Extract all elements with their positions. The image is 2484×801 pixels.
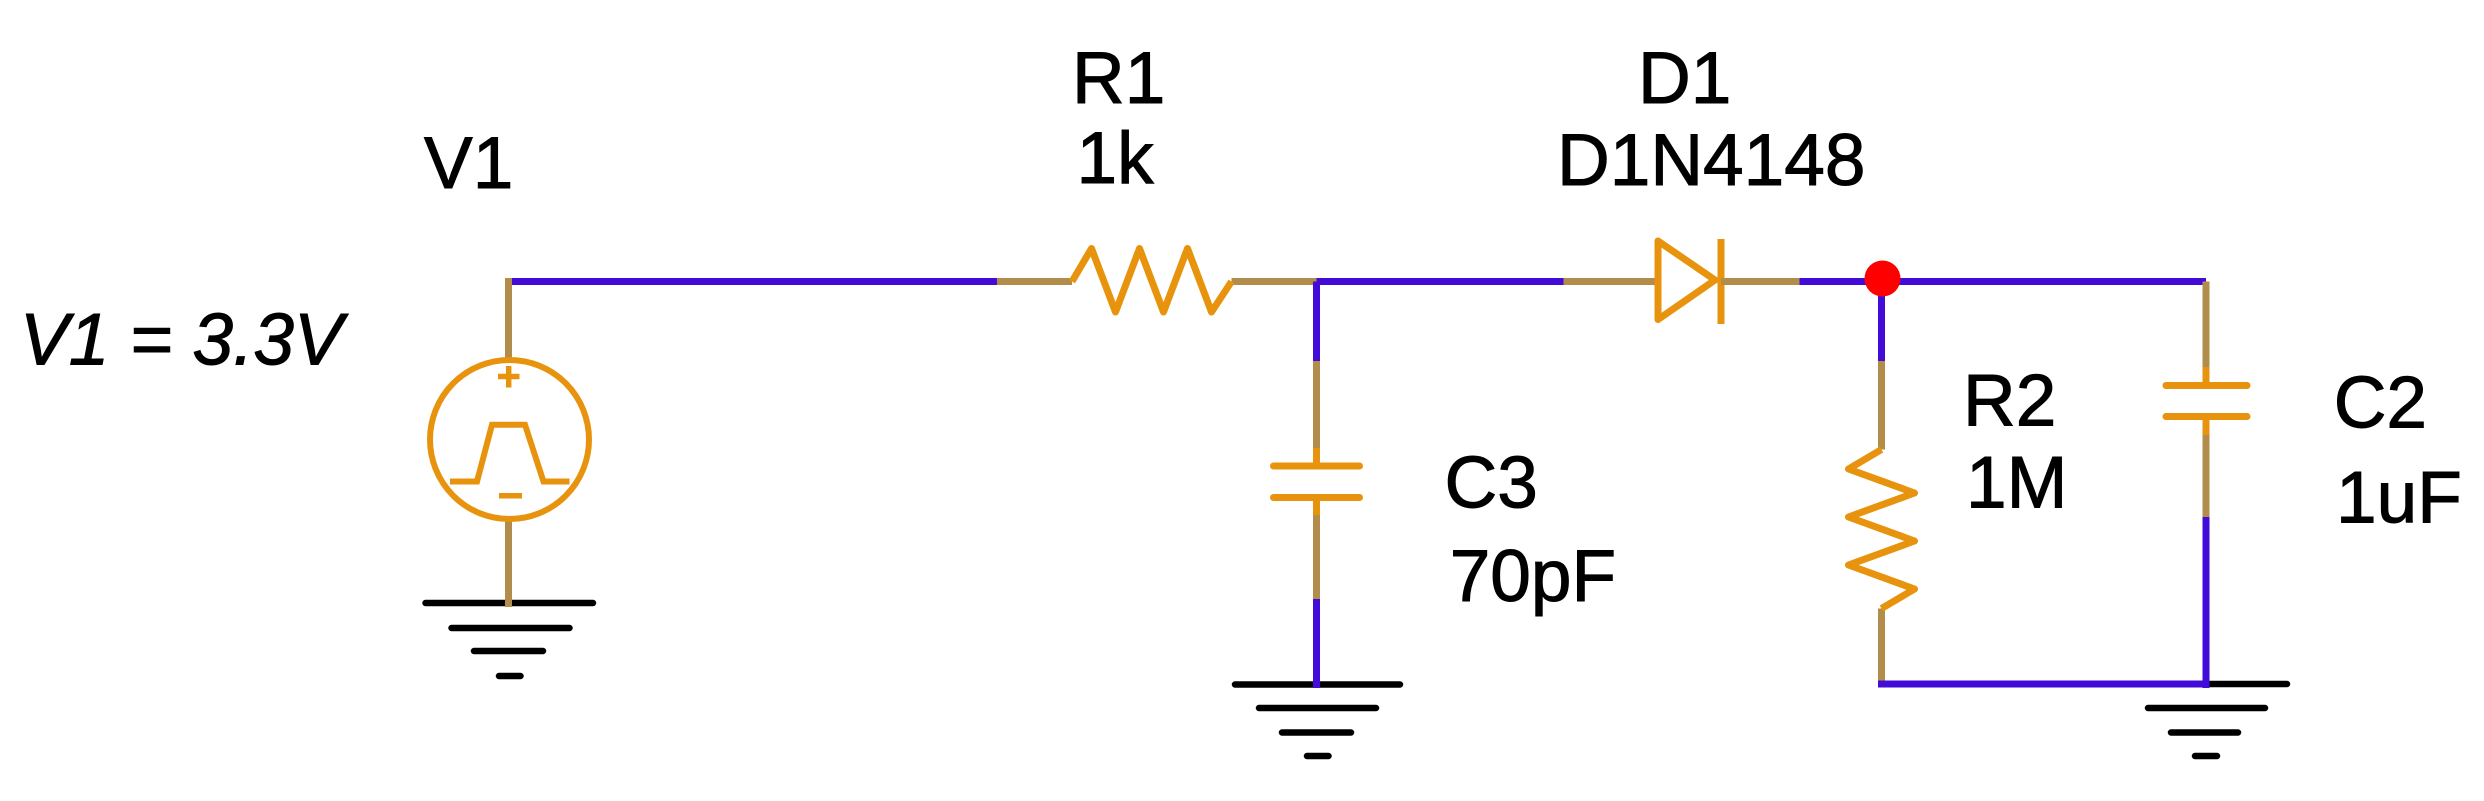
svg-text:V1 = 3.3V: V1 = 3.3V [20, 300, 349, 381]
wire node to C2 [1883, 278, 2207, 285]
capacitor C3 [1274, 361, 1360, 599]
wire D1 to node [1800, 278, 1883, 285]
ground (C3) [1235, 685, 1400, 757]
svg-text:D1N4148: D1N4148 [1557, 120, 1865, 201]
svg-text:R1: R1 [1072, 38, 1165, 119]
wire V1 to R1 [506, 278, 998, 285]
wire C2 to bottom rail [2203, 517, 2210, 688]
svg-text:R2: R2 [1963, 360, 2056, 441]
ground (V1) [426, 603, 594, 676]
bottom rail wire R2 to ground [1878, 681, 2209, 688]
capacitor C2 [2166, 282, 2247, 518]
svg-text:V1: V1 [424, 123, 513, 204]
svg-text:1M: 1M [1966, 442, 2067, 523]
wire R1 to D1 [1317, 278, 1564, 285]
svg-text:C3: C3 [1445, 443, 1538, 524]
wire C3 to ground [1313, 599, 1320, 688]
wire node down to R2 [1878, 282, 1885, 362]
svg-text:C2: C2 [2334, 362, 2427, 443]
svg-text:70pF: 70pF [1450, 536, 1616, 617]
wire junction down to C3 [1313, 282, 1320, 362]
voltage source V1 [430, 278, 589, 607]
svg-text:1uF: 1uF [2336, 458, 2462, 539]
resistor R1 [997, 249, 1320, 313]
ground (C2) [2124, 684, 2287, 756]
svg-text:D1: D1 [1638, 38, 1731, 119]
diode D1 [1564, 239, 1800, 324]
junction node dot [1865, 261, 1901, 297]
svg-text:1k: 1k [1077, 118, 1155, 199]
resistor R2 [1849, 361, 1915, 684]
